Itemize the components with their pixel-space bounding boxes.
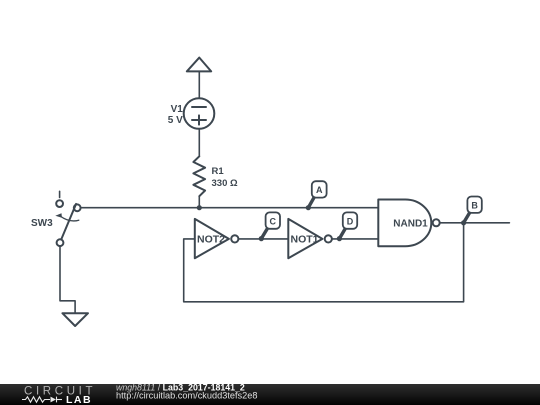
- svg-text:330 Ω: 330 Ω: [212, 178, 238, 189]
- main horizontal wire: [81, 207, 379, 209]
- svg-text:NOT1: NOT1: [291, 234, 319, 246]
- resistor R1: [193, 156, 205, 196]
- power flag (VCC arrow): [187, 58, 211, 72]
- wire NOT2-out to NOT1-in: [238, 238, 288, 240]
- junction dot node C: [259, 236, 264, 241]
- svg-text:NOT2: NOT2: [197, 234, 225, 246]
- ground: [62, 313, 88, 326]
- wire flag-to-V1: [198, 71, 200, 98]
- svg-text:D: D: [347, 216, 354, 226]
- svg-text:SW3: SW3: [31, 218, 53, 229]
- svg-text:LAB: LAB: [66, 394, 92, 405]
- feedback wire B-to-NOT2 input: [184, 223, 464, 302]
- wire NAND1 output: [440, 222, 510, 224]
- junction dot R1/main: [197, 205, 202, 210]
- inverter NOT2: [195, 219, 239, 258]
- svg-text:R1: R1: [212, 166, 225, 177]
- node A flag: [308, 181, 326, 208]
- inverter NOT1: [288, 219, 332, 258]
- svg-text:B: B: [471, 200, 478, 210]
- node D flag: [339, 212, 357, 238]
- junction dot node D: [337, 236, 342, 241]
- svg-text:5 V: 5 V: [168, 115, 183, 126]
- svg-text:http://circuitlab.com/ckudd3te: http://circuitlab.com/ckudd3tefs2e8: [116, 390, 257, 400]
- node B flag: [464, 197, 482, 223]
- logo resistor-diode glyph: [22, 397, 62, 403]
- svg-text:NAND1: NAND1: [393, 219, 428, 230]
- svg-text:V1: V1: [171, 104, 184, 115]
- svg-text:C: C: [270, 216, 277, 226]
- label V1 value: [168, 104, 183, 126]
- wire V1-to-R1: [198, 129, 200, 157]
- junction dot node B: [461, 220, 466, 225]
- wire R1-to-main: [198, 196, 200, 208]
- junction dot node A: [306, 205, 311, 210]
- wire SW3-to-ground: [60, 246, 75, 313]
- voltage source V1: [184, 98, 215, 129]
- wire NOT1-out to NAND1: [332, 238, 378, 240]
- switch SW3: [55, 191, 80, 246]
- nand gate NAND1: [378, 200, 439, 247]
- node C flag: [261, 212, 280, 238]
- label R1 value: [212, 166, 238, 189]
- svg-text:A: A: [316, 185, 323, 195]
